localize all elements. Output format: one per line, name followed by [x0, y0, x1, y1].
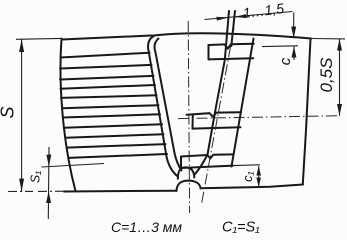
1...1,5 right arrow: [234, 14, 246, 18]
electrode axis centerline: [202, 28, 235, 204]
top right extension line: [311, 38, 345, 40]
S1 dimension line: [47, 147, 50, 219]
middle piece top edge: [151, 33, 311, 38]
lamination line 9: [66, 134, 164, 138]
fixing tab 2 bottom edge: [193, 127, 241, 128]
slag bell (upper pool arc): [178, 167, 194, 178]
svg-text:c₁: c₁: [240, 171, 255, 182]
fixing tab 3 top edge with weld notch: [181, 154, 233, 158]
S dimension arrow down: [19, 179, 24, 192]
lamination line 3: [60, 76, 154, 80]
groove vertical centerline: [188, 21, 189, 213]
base plate line (S1 top extension): [42, 164, 105, 168]
c1 arrow down: [256, 178, 261, 188]
fixing tab 2 top edge with weld notch: [187, 112, 242, 117]
left block top edge: [62, 36, 152, 40]
c dimension lower line with up arrow: [293, 46, 295, 60]
fixing tab 1 left edge: [208, 45, 210, 59]
S dimension bottom extension line: [8, 190, 64, 192]
plate electrode far edge: [232, 39, 254, 167]
left block left edge: [61, 39, 76, 192]
svg-text:C₁=S₁: C₁=S₁: [222, 220, 260, 236]
bottom surface line left segment: [64, 190, 176, 193]
lamination line 8: [64, 124, 162, 128]
c1 dimension line: [258, 166, 260, 187]
fixing tab 1 bottom edge: [209, 58, 254, 59]
middle piece right edge: [303, 39, 311, 184]
tab 2 horizontal centerline: [178, 116, 340, 119]
S1 arrow up (below bottom tick): [46, 191, 51, 203]
c1 top extension line: [233, 164, 260, 167]
plate electrode left edge: [195, 11, 229, 174]
S dimension arrow up: [19, 39, 24, 52]
weld pool dome: [177, 181, 201, 191]
svg-text:1…1,5: 1…1,5: [242, 0, 285, 21]
S1 arrow down (above top tick): [46, 155, 51, 167]
lamination line 7: [63, 114, 160, 117]
svg-text:S₁: S₁: [29, 171, 43, 183]
lamination line 10: [67, 144, 166, 148]
svg-text:C=1…3 мм: C=1…3 мм: [111, 219, 182, 235]
lamination line 11: [69, 154, 168, 158]
lamination line 5: [61, 95, 157, 98]
0,5S arrow up: [337, 39, 342, 51]
lamination line 6: [62, 105, 159, 108]
fixing tab 2 left edge: [192, 114, 194, 128]
lamination line 2: [60, 65, 152, 69]
c1 arrow up: [256, 166, 261, 176]
0,5S dimension line: [339, 39, 341, 116]
1...1,5 dimension line: [205, 12, 293, 20]
S dimension line: [21, 39, 23, 191]
1...1,5 left arrow: [216, 17, 228, 21]
svg-text:c: c: [277, 57, 294, 65]
0,5S arrow down: [337, 104, 342, 116]
middle piece groove left edge outer line: [148, 36, 178, 176]
plate electrode right edge (top stub): [231, 11, 235, 46]
fixing tab 3 bottom edge: [181, 166, 233, 168]
svg-text:0,5S: 0,5S: [317, 57, 336, 93]
bottom surface line right segment: [201, 185, 304, 189]
fixing tab 3 left edge: [180, 157, 182, 169]
fixing tab 1 top edge with weld notch: [209, 44, 254, 49]
c dimension upper line with down arrow: [293, 13, 295, 39]
lamination line 4: [61, 85, 156, 89]
lamination line 1: [61, 53, 150, 58]
svg-text:S: S: [0, 106, 18, 118]
middle piece groove left edge inner line: [155, 39, 182, 171]
S dimension top extension line: [16, 37, 62, 40]
c bottom extension line: [262, 45, 298, 48]
